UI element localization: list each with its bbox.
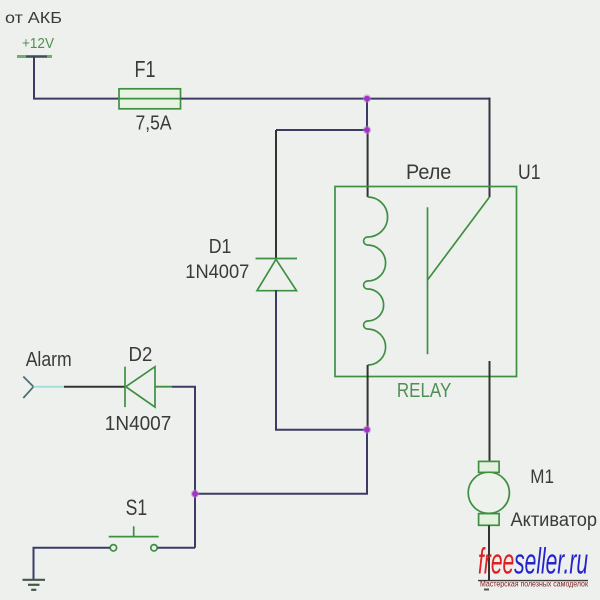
svg-text:D1: D1 (209, 236, 232, 258)
motor M1 bottom terminal block (479, 514, 500, 526)
wire D1 top lead (275, 130, 277, 259)
wire S1 right contact to node D vertical (158, 547, 196, 549)
junction node C (363, 426, 371, 434)
wire D1 bottom lead down and right to node C (276, 290, 367, 430)
wire S1 left contact to ground (34, 548, 111, 580)
wire relay coil bottom lead to node C (367, 365, 369, 430)
diode D2 (125, 367, 155, 407)
wire from node C down and left to switch S1 node (195, 430, 367, 494)
svg-text:D2: D2 (129, 343, 153, 366)
Alarm port wire (cyan) (34, 386, 65, 388)
junction node D (191, 490, 199, 498)
svg-text:1N4007: 1N4007 (105, 413, 172, 435)
wire right lead down into relay switch (489, 98, 491, 197)
diode D1 (256, 259, 298, 291)
svg-text:Мастерская полезных самоделок: Мастерская полезных самоделок (480, 580, 588, 589)
junction node B (363, 126, 371, 134)
fuse F1 body (119, 89, 181, 109)
power symbol +12V bar (17, 55, 52, 58)
relay U1 coil (364, 197, 388, 365)
motor M1 body (468, 472, 509, 513)
freeseller.ru logo (478, 541, 588, 591)
motor M1 top terminal block (479, 461, 500, 472)
wire D2 cathode right and down to node D (172, 387, 195, 548)
svg-text:Alarm: Alarm (26, 348, 72, 371)
svg-text:от АКБ: от АКБ (5, 10, 62, 27)
wire node B left to diode D1 branch (276, 129, 367, 131)
wire from node A down to node B (366, 99, 368, 130)
svg-text:Реле: Реле (406, 161, 451, 184)
relay U1 switch contact bar (427, 207, 429, 354)
wire relay switch lower lead to motor M1 (489, 361, 491, 461)
svg-text:1N4007: 1N4007 (185, 261, 249, 283)
svg-text:F1: F1 (135, 56, 156, 82)
wire from +12V down and right to fuse F1 (34, 57, 119, 99)
svg-text:RELAY: RELAY (397, 379, 452, 402)
wire from fuse to relay top right (181, 98, 490, 100)
Alarm input port arrow (23, 377, 33, 399)
wire relay coil top lead (367, 130, 369, 197)
svg-text:M1: M1 (530, 466, 554, 488)
svg-text:7,5A: 7,5A (136, 113, 173, 135)
ground (23, 580, 46, 590)
wire Alarm to diode D2 anode (64, 386, 125, 388)
switch S1 (109, 526, 159, 551)
svg-text:freeseller.ru: freeseller.ru (478, 541, 588, 582)
svg-text:U1: U1 (518, 161, 541, 184)
svg-text:S1: S1 (126, 495, 148, 520)
relay U1 switch armature diagonal (428, 197, 490, 280)
junction node A (363, 94, 371, 102)
svg-text:Активатор: Активатор (511, 510, 598, 531)
wire M1 bottom lead down (488, 525, 490, 580)
svg-text:+12V: +12V (22, 35, 54, 52)
relay U1 box (335, 187, 517, 377)
wire D2 cathode green lead (155, 386, 172, 388)
